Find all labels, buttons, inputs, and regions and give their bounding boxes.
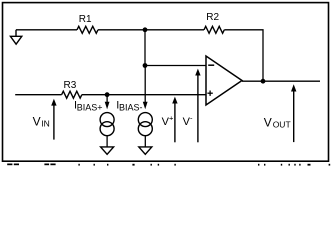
op-amp U1	[206, 56, 242, 105]
arrowhead IBIAS-	[143, 102, 148, 110]
ground (top-left)	[10, 30, 21, 44]
node: inverting input junction	[143, 63, 148, 68]
resistor R3	[62, 91, 82, 98]
label V-	[183, 114, 193, 129]
wire: R2 to output corner	[224, 30, 263, 81]
wire: ground to R1	[16, 29, 77, 31]
V- arrow	[195, 69, 200, 143]
svg-text:V: V	[33, 114, 41, 128]
current source IBIAS- (two circles)	[138, 113, 152, 136]
V+ arrow	[172, 97, 177, 143]
svg-text:OUT: OUT	[273, 120, 291, 130]
node: output junction	[261, 79, 266, 84]
svg-text:BIAS-: BIAS-	[119, 102, 143, 112]
wire: IBIAS- source to ground	[144, 136, 146, 147]
wire: junction down to IBIAS+ source	[106, 95, 108, 103]
arrowhead IBIAS+	[105, 102, 110, 110]
wire: R1 to R2	[98, 29, 204, 31]
op-amp plus pin mark	[207, 92, 212, 94]
current source IBIAS+ (two circles)	[100, 113, 114, 136]
wire: op-amp output	[242, 80, 320, 82]
wire: to op-amp inverting input	[145, 65, 206, 67]
VOUT arrow	[291, 84, 296, 142]
resistor R2	[204, 26, 224, 33]
VIN arrow	[51, 99, 56, 140]
resistor R1	[77, 26, 98, 33]
node: non-inverting input junction	[105, 92, 110, 97]
svg-text:+: +	[169, 114, 174, 123]
svg-text:R1: R1	[79, 14, 92, 25]
svg-text:V: V	[264, 115, 272, 129]
op-amp minus pin mark	[208, 64, 214, 66]
svg-text:IN: IN	[41, 119, 50, 129]
label VOUT	[264, 115, 291, 129]
ground (below IBIAS-)	[139, 147, 152, 154]
svg-text:BIAS+: BIAS+	[77, 102, 103, 112]
wire: IBIAS+ source to ground	[106, 136, 108, 147]
label VIN	[33, 114, 50, 128]
svg-text:R3: R3	[64, 80, 77, 91]
label IBIAS+	[74, 100, 103, 113]
ground (below IBIAS+)	[101, 147, 114, 154]
svg-text:R2: R2	[206, 12, 219, 23]
wire: R3 to op-amp non-inverting input	[82, 94, 206, 96]
label V+	[162, 114, 174, 129]
node: inverting net junction (top)	[143, 27, 148, 32]
wire: inverting net down to IBIAS- source (crosses R3 wire, no dot)	[144, 66, 146, 104]
label IBIAS-	[116, 100, 142, 113]
border frame	[3, 3, 329, 162]
cropped caption text fragments (bottom edge)	[7, 164, 330, 166]
wire: VIN to R3	[15, 94, 61, 96]
wire: vertical inverting net	[144, 30, 146, 66]
